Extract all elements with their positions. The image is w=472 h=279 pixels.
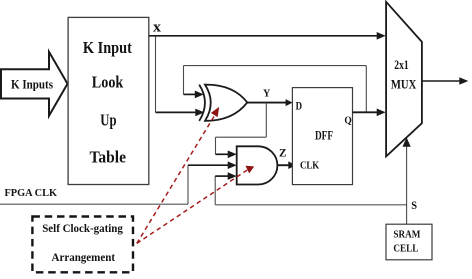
svg-text:x: x (153, 20, 162, 36)
svg-text:Y: Y (263, 89, 271, 100)
wire Y branch to AND top input (216, 103, 267, 158)
svg-text:MUX: MUX (391, 77, 417, 92)
svg-text:Q: Q (344, 115, 352, 127)
svg-text:S: S (411, 200, 417, 212)
SRAM cell (386, 224, 432, 260)
svg-text:SRAM: SRAM (393, 229, 420, 240)
svg-text:K Input: K Input (83, 38, 132, 57)
mux U4 (386, 2, 422, 157)
LUT box (68, 17, 149, 184)
svg-text:2x1: 2x1 (394, 57, 408, 72)
svg-text:Table: Table (90, 148, 127, 167)
svg-text:CELL: CELL (393, 244, 418, 255)
svg-text:Self Clock-gating: Self Clock-gating (42, 221, 123, 235)
svg-text:Z: Z (279, 146, 287, 160)
wire X from LUT to MUX (149, 32, 386, 40)
self clock-gating arrangement dashed box (32, 217, 133, 273)
K Inputs block arrow (1, 52, 68, 116)
wire S select from SRAM to MUX (403, 137, 411, 224)
wire FPGA CLK to AND middle input (0, 161, 237, 204)
wire X branch down to XOR bottom input (156, 37, 205, 117)
svg-text:CLK: CLK (300, 160, 320, 172)
svg-text:Look: Look (92, 72, 124, 91)
svg-text:FPGA CLK: FPGA CLK (5, 188, 58, 199)
wire feedback from Q to XOR top input (184, 66, 367, 112)
wire Y from XOR to DFF D (247, 99, 292, 106)
wire S branch to AND bottom input (215, 172, 406, 205)
svg-text:D: D (296, 98, 303, 112)
wire Z from AND to DFF CLK (277, 161, 296, 169)
svg-text:Arrangement: Arrangement (52, 250, 116, 264)
wire Q from DFF to MUX (353, 109, 386, 117)
red dashed arrow to AND (137, 166, 254, 244)
and-gate U2 (237, 146, 278, 184)
dff U3 (292, 88, 352, 185)
wire MUX output (422, 77, 468, 85)
svg-text:Up: Up (100, 111, 116, 130)
xor-gate U1 (199, 85, 247, 121)
svg-text:K Inputs: K Inputs (11, 77, 53, 91)
red dashed arrow to XOR (137, 107, 219, 244)
svg-text:DFF: DFF (315, 128, 333, 143)
